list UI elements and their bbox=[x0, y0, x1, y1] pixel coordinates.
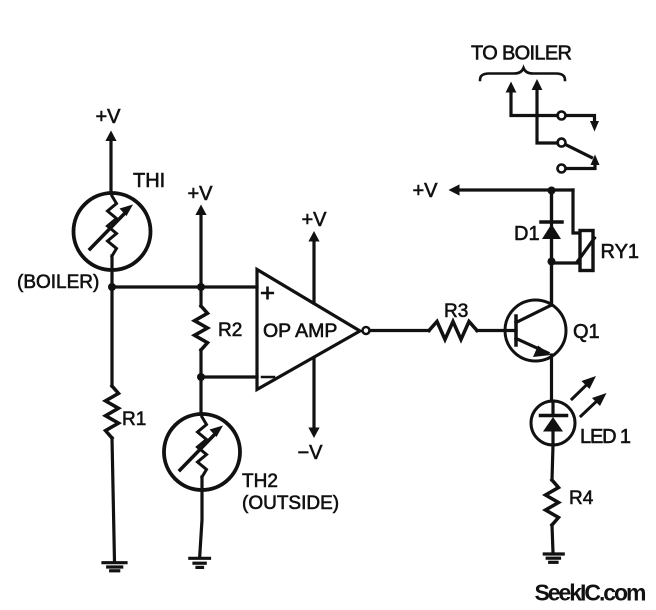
svg-text:TO BOILER: TO BOILER bbox=[471, 43, 572, 65]
wire R4 to ground bbox=[552, 525, 553, 553]
wire +V to R2 bbox=[199, 287, 202, 306]
LED LED1 bbox=[531, 401, 575, 445]
wire node down to R1 bbox=[110, 287, 113, 386]
svg-text:R2: R2 bbox=[218, 320, 242, 341]
svg-text:+V: +V bbox=[301, 209, 327, 231]
wire relay top connection bbox=[573, 190, 579, 233]
svg-text:+V: +V bbox=[187, 183, 213, 205]
op-amp U1 bbox=[257, 270, 360, 390]
svg-text:+V: +V bbox=[95, 106, 121, 128]
resistor R2 bbox=[195, 306, 243, 350]
ground R1 bbox=[103, 563, 126, 571]
wire TH1 bottom to node bbox=[110, 256, 113, 287]
node +V supply relay bbox=[412, 180, 573, 202]
wire node to op-amp - input bbox=[201, 375, 257, 378]
wire op-amp output to R3 bbox=[370, 329, 429, 332]
svg-text:TH2: TH2 bbox=[242, 471, 278, 492]
node junction R2 top bbox=[197, 283, 205, 291]
wire D1 bottom to Q1 collector bbox=[550, 262, 553, 306]
op-amp output bubble bbox=[363, 327, 370, 334]
resistor R4 bbox=[546, 480, 594, 525]
resistor R1 bbox=[106, 386, 147, 438]
svg-text:D1: D1 bbox=[514, 223, 540, 245]
thermistor TH2 bbox=[164, 414, 240, 490]
ground R4 bbox=[544, 554, 563, 562]
svg-text:−V: −V bbox=[297, 442, 323, 464]
node junction R2 bottom bbox=[197, 373, 205, 381]
node junction D1 top bbox=[548, 187, 556, 195]
wire Q1 collector up bbox=[550, 190, 553, 305]
svg-text:LED 1: LED 1 bbox=[580, 426, 631, 448]
wire node down to TH2 bbox=[199, 377, 202, 414]
relay contact 2 bbox=[558, 139, 592, 158]
svg-text:THI: THI bbox=[133, 170, 165, 192]
diode D1 bbox=[541, 190, 562, 262]
svg-text:(BOILER): (BOILER) bbox=[17, 272, 99, 293]
svg-text:R4: R4 bbox=[569, 488, 594, 509]
wire contact feed right arrow bbox=[532, 79, 558, 143]
wire LED to R4 bbox=[552, 445, 553, 480]
wire R3 to Q1 base bbox=[477, 329, 516, 332]
LED light arrow 2 bbox=[581, 393, 607, 416]
relay contact 1 bbox=[558, 112, 600, 132]
thermistor THI bbox=[74, 193, 151, 270]
relay contact 3 bbox=[558, 155, 600, 173]
svg-text:R3: R3 bbox=[444, 301, 468, 322]
svg-text:Q1: Q1 bbox=[573, 321, 600, 343]
node +V supply R2 bbox=[187, 183, 213, 287]
svg-text:+V: +V bbox=[412, 180, 438, 202]
wire bus node to op-amp + input bbox=[112, 285, 257, 288]
wire contact feed left arrow bbox=[506, 82, 558, 116]
node junction D1 bottom bbox=[548, 258, 556, 266]
svg-text:R1: R1 bbox=[122, 409, 146, 430]
node junction boiler bbox=[108, 283, 116, 291]
svg-text:OP AMP: OP AMP bbox=[263, 320, 337, 342]
ground TH2 bbox=[190, 558, 210, 567]
wire relay bottom connection bbox=[552, 261, 580, 264]
wire R2 to node bbox=[199, 350, 202, 377]
brace TO BOILER bbox=[480, 68, 565, 80]
wire R1 to ground bbox=[112, 438, 115, 562]
node -V supply op-amp bbox=[297, 428, 323, 465]
wire Q1 emitter to LED bbox=[550, 355, 553, 401]
relay coil RY1 bbox=[578, 231, 595, 271]
svg-text:RY1: RY1 bbox=[601, 241, 640, 263]
svg-text:(OUTSIDE): (OUTSIDE) bbox=[242, 493, 339, 514]
transistor Q1 bbox=[505, 300, 566, 361]
LED light arrow 1 bbox=[572, 376, 596, 399]
node +V supply op-amp bbox=[301, 209, 327, 428]
resistor R3 bbox=[429, 301, 477, 340]
node +V supply TH1 bbox=[95, 106, 121, 193]
wire TH2 to ground bbox=[200, 477, 202, 557]
svg-text:SeekIC.com: SeekIC.com bbox=[535, 580, 647, 606]
